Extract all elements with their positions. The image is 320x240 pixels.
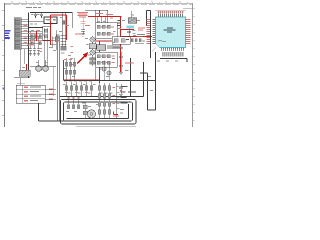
vertical chain in bottom box [84, 102, 86, 119]
IC U2 small [89, 44, 96, 49]
relay box K1 [44, 17, 57, 24]
IC U4 gray [97, 45, 115, 51]
motor M1 [87, 110, 95, 118]
title text top-left [26, 7, 41, 8]
transistor Q4 [102, 61, 106, 81]
transistor Q1 [90, 37, 95, 42]
capacitor chain G [119, 84, 123, 95]
red value label C6 [85, 25, 90, 26]
red tiny text above arrow [75, 34, 81, 35]
border frame right edge [192, 3, 194, 127]
diode box U5 [112, 37, 130, 45]
red arrow pointer [77, 52, 88, 64]
wire top bus H2 [85, 10, 108, 23]
capacitor C6 red chain [81, 18, 86, 30]
connector CN1 label (blue) [5, 30, 11, 39]
bottom box outer [61, 100, 137, 125]
U1 top pins [159, 14, 183, 18]
red value labels on caps [40, 48, 43, 52]
red trace main vertical [64, 17, 153, 84]
pin1 chamfer line [152, 48, 156, 52]
connector CN1 (left, 13-pin) [14, 18, 21, 50]
border frame top ruler numbers [11, 0, 181, 3]
U1 right pin labels (red) [187, 19, 191, 44]
red net box left edge [51, 15, 67, 45]
pin stubs and labels right of U6 [117, 87, 120, 109]
red wire to Q3 [26, 64, 28, 70]
red wire short [121, 29, 134, 31]
U1 bottom pin labels (red) [161, 49, 184, 51]
border frame top ruler ticks [12, 2, 187, 3]
capacitor chain F [119, 52, 123, 75]
highlighted net name (cyan) [127, 26, 135, 29]
wire bus from CN1 into section [29, 31, 43, 46]
transistor Q5 [107, 63, 111, 81]
ground GND1 [81, 34, 85, 36]
red wire highlight A [27, 31, 61, 41]
U1 right pins [186, 20, 189, 44]
box section1 outline [29, 13, 73, 79]
vertical bus double line [58, 36, 60, 121]
table block TB1 [16, 83, 45, 103]
text under diode box [112, 46, 123, 49]
U1 internal part number text [164, 27, 176, 32]
capacitor C7 [81, 30, 85, 34]
IC block U3 with two rows [96, 17, 118, 39]
red tiny marks left of Q column [71, 46, 74, 65]
border frame left ticks [2, 10, 5, 115]
bottom box extra lower edge [76, 125, 136, 127]
component cluster mesh left [31, 35, 41, 45]
resistor network row below U1 [162, 52, 183, 56]
transistor Q3 pair bottom-left [36, 66, 49, 72]
U1 left pin labels (red) [147, 19, 151, 44]
red note right [125, 63, 134, 64]
diode D2 [56, 35, 59, 39]
wires near CN2 [14, 60, 56, 78]
connector CN2 hatched [19, 70, 30, 76]
red label right of BR1 [138, 28, 145, 31]
red note text block [77, 12, 88, 17]
capacitor C4 with ground [33, 46, 36, 56]
U1 left pins [153, 20, 156, 44]
capacitor C5 with ground [37, 46, 40, 56]
capacitor C1 [34, 13, 37, 19]
diodes right of TB1 [49, 89, 53, 100]
red label text A [27, 33, 34, 45]
component cluster E [90, 58, 96, 65]
red row marks in U6 grid [113, 87, 116, 104]
red pin text row top-middle [95, 13, 113, 15]
red labels RB1 [64, 59, 72, 60]
resistor bank RB1 [67, 58, 75, 80]
wire verticals mesh left [20, 28, 48, 86]
border frame top ruler line [5, 2, 193, 4]
wire from table down [39, 103, 73, 121]
capacitor C2 [40, 13, 43, 19]
small parts row under red wire [131, 39, 141, 42]
border frame top dashed line [5, 4, 192, 6]
transistor Q2 [90, 50, 95, 55]
wire pair vertical bus B [61, 13, 73, 50]
title block divider top-right [183, 8, 193, 10]
microcontroller U1 (QFP, cyan) [152, 17, 186, 52]
wires from CN1 pins [21, 19, 29, 48]
component cluster D1 [55, 21, 65, 42]
red dot junction [120, 61, 122, 63]
capacitor C3 with ground [29, 46, 32, 56]
resistor R1 column small [61, 46, 66, 50]
U1 bottom pins [162, 48, 184, 51]
red pin tags near CN1 [24, 25, 28, 43]
U1 top pin label strip [155, 9, 186, 11]
long wire H1 [60, 58, 156, 97]
bridge rectifier BR1 [128, 11, 137, 23]
border frame left edge [4, 3, 6, 127]
filter box FL1 [43, 26, 51, 40]
voltage labels column [118, 20, 122, 26]
IC U6 grid bottom [100, 83, 117, 119]
component under net name [127, 29, 136, 37]
parts inside bottom box left [69, 97, 79, 105]
vertical wire C [93, 10, 96, 81]
red corner in bottom box [114, 112, 119, 115]
IC block U7 with two rows [96, 52, 118, 67]
U1 top pin labels (red) [158, 11, 183, 13]
resistor bank RB2 [64, 80, 92, 81]
box around IC region [147, 11, 151, 59]
wire section right [140, 52, 187, 110]
reference designator micro-labels [22, 14, 178, 113]
red wire top drop [99, 10, 101, 17]
blue mark lower left border [3, 88, 5, 90]
border frame right ticks [193, 8, 196, 120]
